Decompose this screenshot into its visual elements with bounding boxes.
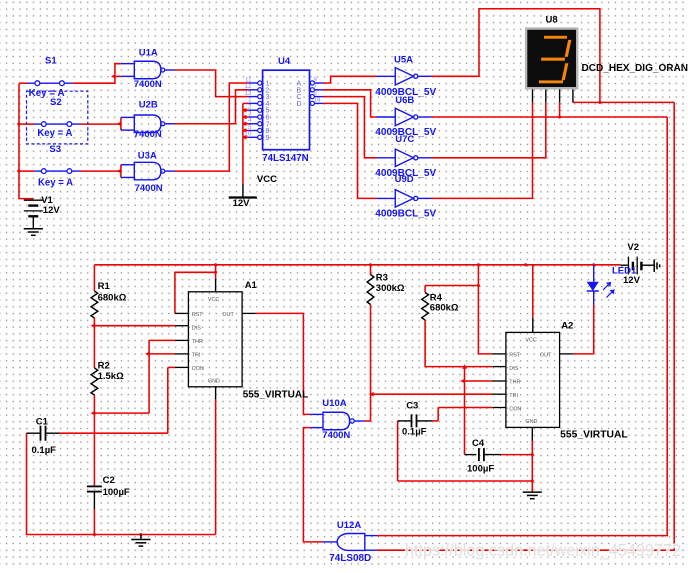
svg-text:U3A: U3A: [138, 151, 157, 162]
svg-text:RST: RST: [509, 353, 520, 359]
svg-text:CON: CON: [192, 366, 204, 372]
svg-text:12V: 12V: [623, 275, 641, 286]
svg-text:10: 10: [244, 131, 252, 138]
svg-text:555_VIRTUAL: 555_VIRTUAL: [560, 429, 628, 440]
svg-text:14: 14: [313, 97, 321, 104]
svg-text:GND: GND: [525, 419, 537, 425]
svg-text:C3: C3: [406, 401, 418, 412]
svg-text:100µF: 100µF: [467, 463, 494, 474]
svg-text:C2: C2: [103, 475, 115, 486]
svg-text:74LS147N: 74LS147N: [262, 153, 309, 164]
svg-text:S3: S3: [49, 144, 61, 155]
svg-text:OUT: OUT: [540, 353, 552, 359]
svg-text:https://blog.csdn.net/weixin_4: https://blog.csdn.net/weixin_45499772: [405, 540, 681, 561]
svg-text:GND: GND: [208, 379, 220, 385]
svg-text:VCC: VCC: [525, 338, 536, 344]
svg-text:7400N: 7400N: [134, 129, 162, 140]
svg-text:RST: RST: [192, 312, 203, 318]
svg-text:U9D: U9D: [395, 174, 414, 185]
svg-text:7400N: 7400N: [134, 79, 162, 90]
svg-text:C4: C4: [472, 438, 485, 449]
svg-text:CON: CON: [509, 407, 521, 413]
svg-text:1.5kΩ: 1.5kΩ: [98, 371, 124, 382]
svg-text:VCC: VCC: [257, 174, 277, 185]
svg-text:0.1µF: 0.1µF: [32, 445, 57, 456]
svg-text:OUT: OUT: [222, 312, 234, 318]
svg-text:U7C: U7C: [395, 134, 414, 145]
svg-text:A1: A1: [245, 280, 258, 291]
svg-text:Key = A: Key = A: [37, 128, 72, 139]
svg-text:7400N: 7400N: [135, 183, 163, 194]
svg-text:TRI: TRI: [192, 353, 201, 359]
svg-text:A2: A2: [561, 320, 573, 331]
svg-text:680kΩ: 680kΩ: [430, 303, 459, 314]
svg-text:Key = A: Key = A: [38, 177, 73, 188]
svg-text:U12A: U12A: [337, 520, 361, 531]
svg-text:4009BCL_5V: 4009BCL_5V: [375, 209, 436, 220]
svg-text:V2: V2: [627, 242, 639, 253]
svg-text:U6B: U6B: [395, 95, 414, 106]
svg-text:TRI: TRI: [509, 393, 518, 399]
svg-text:U4: U4: [278, 56, 291, 67]
svg-text:DIS: DIS: [509, 366, 518, 372]
svg-text:C1: C1: [36, 417, 49, 428]
svg-text:DCD_HEX_DIG_ORAN: DCD_HEX_DIG_ORAN: [582, 63, 688, 74]
svg-text:555_VIRTUAL: 555_VIRTUAL: [243, 389, 309, 400]
svg-text:12V: 12V: [233, 198, 251, 209]
svg-text:THR: THR: [509, 380, 520, 386]
svg-text:12V: 12V: [43, 205, 61, 216]
svg-text:R3: R3: [376, 272, 388, 283]
svg-text:U1A: U1A: [139, 47, 158, 58]
svg-text:100µF: 100µF: [103, 487, 130, 498]
svg-text:300kΩ: 300kΩ: [376, 283, 405, 294]
svg-text:S1: S1: [45, 55, 57, 66]
svg-text:D: D: [297, 101, 302, 108]
svg-text:680kΩ: 680kΩ: [98, 293, 127, 304]
svg-text:LED1: LED1: [612, 266, 637, 277]
svg-text:74LS08D: 74LS08D: [329, 553, 371, 564]
svg-text:U8: U8: [546, 14, 558, 25]
svg-text:DIS: DIS: [192, 326, 201, 332]
svg-text:U5A: U5A: [394, 54, 413, 65]
svg-text:THR: THR: [192, 339, 203, 345]
svg-text:0.1µF: 0.1µF: [402, 427, 427, 438]
svg-text:R1: R1: [98, 281, 111, 292]
svg-text:VCC: VCC: [208, 297, 219, 303]
svg-text:U10A: U10A: [322, 398, 346, 409]
svg-text:U2B: U2B: [139, 99, 158, 110]
svg-text:9: 9: [266, 135, 270, 142]
svg-text:R2: R2: [98, 361, 110, 372]
svg-text:Key = A: Key = A: [29, 88, 65, 99]
svg-text:7400N: 7400N: [322, 430, 350, 441]
